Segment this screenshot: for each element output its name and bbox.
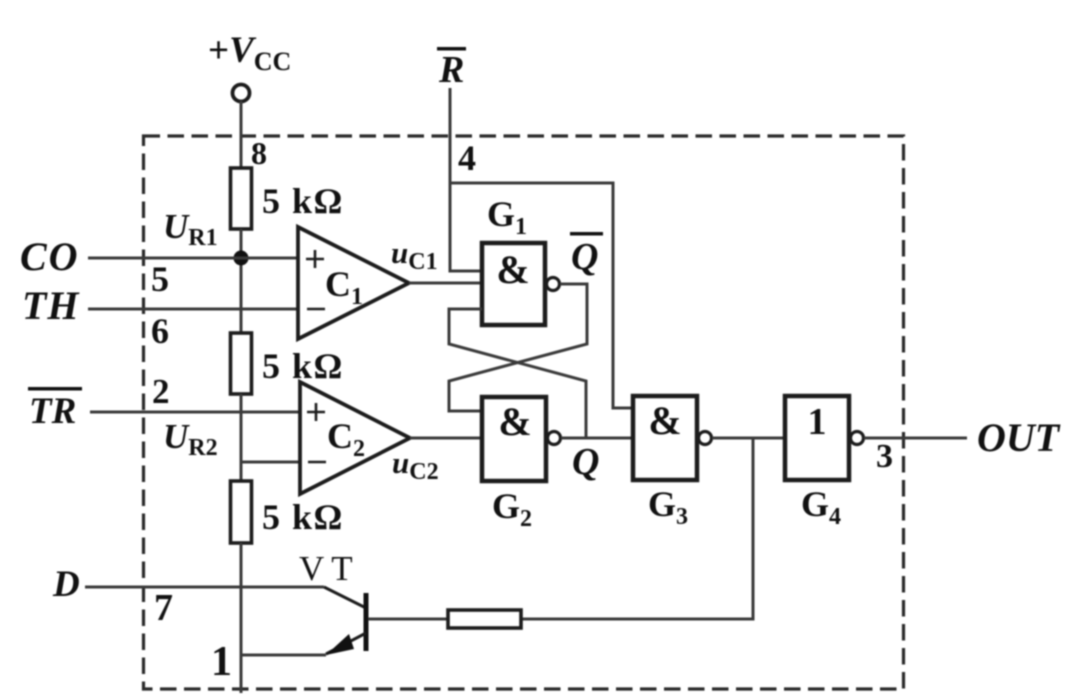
svg-text:G2: G2 xyxy=(492,486,532,532)
label Q-bar xyxy=(570,232,603,278)
svg-text:6: 6 xyxy=(151,311,169,351)
label TR with overbar xyxy=(28,387,82,432)
wire uC2: C2 output to G2 xyxy=(410,437,482,440)
svg-text:&: & xyxy=(498,399,531,444)
wire Q-bar: G1 output to G2 input (cross-coupling) xyxy=(449,284,587,411)
svg-text:8: 8 xyxy=(251,135,267,171)
svg-text:CO: CO xyxy=(20,234,80,279)
wire emitter to ground pin 1 xyxy=(241,654,326,657)
svg-text:TH: TH xyxy=(22,283,80,328)
svg-text:1: 1 xyxy=(211,639,232,685)
wire Q: G2 output to G3 xyxy=(561,437,633,440)
svg-text:uC2: uC2 xyxy=(392,445,439,485)
resistor R1 xyxy=(231,168,252,229)
NAND gate G3 xyxy=(633,396,712,480)
svg-text:4: 4 xyxy=(458,138,476,178)
wire VT base to base resistor xyxy=(368,618,448,621)
IC package dashed boundary xyxy=(144,136,904,689)
svg-text:5: 5 xyxy=(151,259,169,299)
resistor R3 xyxy=(231,481,252,543)
wire R-bar vertical into IC xyxy=(450,88,482,271)
svg-text:VT: VT xyxy=(299,549,360,588)
svg-text:5 kΩ: 5 kΩ xyxy=(262,497,344,537)
svg-text:D: D xyxy=(52,564,80,605)
node UR1 junction dot xyxy=(234,251,249,266)
wire CO (pin 5) input xyxy=(88,257,298,260)
svg-text:1: 1 xyxy=(808,401,827,443)
wire uC1: C1 output to G1 xyxy=(409,282,482,285)
svg-text:R: R xyxy=(438,49,464,91)
wire G3 output to G4 xyxy=(712,437,785,440)
NAND gate G1 xyxy=(482,243,560,325)
svg-text:&: & xyxy=(648,398,681,443)
power terminal +Vcc xyxy=(233,85,250,102)
comparator C1 xyxy=(298,227,409,339)
wire Q feedback: Q line to G1 input (cross-coupling) xyxy=(449,309,586,438)
NAND gate G2 xyxy=(482,397,561,481)
svg-text:G4: G4 xyxy=(801,484,841,530)
inverter G4 xyxy=(785,396,864,480)
svg-text:Q: Q xyxy=(572,441,599,483)
transistor VT xyxy=(324,587,369,655)
comparator C2 xyxy=(300,382,410,494)
wire feedback from G3 output down to VT base resistor xyxy=(521,438,753,619)
svg-text:+VCC: +VCC xyxy=(208,30,291,76)
wire R2 to R3 xyxy=(240,394,243,481)
svg-text:G3: G3 xyxy=(648,484,688,530)
wire R1 to R2 through node UR1 xyxy=(240,229,243,333)
svg-text:UR1: UR1 xyxy=(163,207,218,251)
wire OUT (pin 3) xyxy=(864,437,967,440)
svg-text:uC1: uC1 xyxy=(391,235,438,275)
resistor R2 xyxy=(231,333,252,394)
svg-text:TR: TR xyxy=(29,391,76,432)
wire Vcc terminal to R1 xyxy=(240,101,243,168)
wire TH (pin 6) input xyxy=(88,308,298,311)
svg-text:5 kΩ: 5 kΩ xyxy=(262,181,344,221)
svg-text:&: & xyxy=(496,247,529,292)
svg-text:5 kΩ: 5 kΩ xyxy=(262,346,344,386)
input terminal R-bar (reset) xyxy=(437,47,466,91)
wire node UR2 to C2 inverting input xyxy=(241,461,300,464)
wire D (pin 7) discharge input xyxy=(85,586,324,589)
wire R-bar branch to G3 xyxy=(450,183,633,408)
svg-text:7: 7 xyxy=(154,587,173,629)
wire R3 to ground pin 1 xyxy=(240,543,243,693)
wire TR (pin 2) input xyxy=(90,411,300,414)
svg-text:2: 2 xyxy=(152,372,170,411)
svg-text:UR2: UR2 xyxy=(163,417,218,461)
svg-text:3: 3 xyxy=(876,438,893,475)
base resistor (unlabeled) xyxy=(448,610,521,628)
svg-text:G1: G1 xyxy=(487,194,527,240)
svg-text:OUT: OUT xyxy=(977,415,1061,460)
svg-text:Q: Q xyxy=(571,236,598,278)
